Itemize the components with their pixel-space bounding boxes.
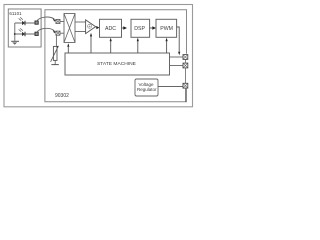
wire pad1 to pad2 xyxy=(184,59,186,63)
wire to photodiode D1 xyxy=(15,22,36,24)
svg-text:Regulator: Regulator xyxy=(137,87,157,92)
die pad A xyxy=(35,21,38,24)
chip input pad A xyxy=(56,19,60,23)
arrow SM to amp xyxy=(90,33,92,53)
photodiode D2 xyxy=(19,28,25,36)
svg-text:61101: 61101 xyxy=(9,11,22,16)
bond wire B xyxy=(37,28,56,33)
wire SM to pad1 xyxy=(170,56,184,58)
arrow SM to DSP xyxy=(137,38,139,53)
svg-text:PWM: PWM xyxy=(160,26,173,32)
wire SM to pad2 xyxy=(170,65,184,67)
voltage regulator box xyxy=(135,79,158,96)
sensor bus wire xyxy=(14,23,16,41)
junction dot xyxy=(14,33,16,35)
wire pad3 to chip edge xyxy=(184,88,186,102)
chip block 90302 xyxy=(45,10,187,102)
output pad 2 xyxy=(183,63,188,68)
arrow SM to chopper xyxy=(67,43,69,53)
wire chopper to amp lower xyxy=(75,31,86,33)
state machine box xyxy=(65,53,170,75)
svg-text:ADC: ADC xyxy=(105,26,116,32)
die pad B xyxy=(35,32,38,35)
wire to photodiode D2 xyxy=(15,33,36,35)
wire PWM output xyxy=(177,27,181,55)
op-amp U1 xyxy=(86,20,96,34)
svg-text:DSP: DSP xyxy=(134,26,145,32)
arrow SM to ADC xyxy=(110,38,112,53)
thermistor RT xyxy=(51,35,59,64)
ground xyxy=(11,41,19,44)
PWM box xyxy=(156,19,177,37)
wire VR to pad3 xyxy=(158,86,183,88)
label 90302 xyxy=(55,93,69,99)
wire pad A to chopper xyxy=(60,21,64,23)
output pad 1 xyxy=(183,55,188,60)
figure outer border xyxy=(4,5,193,107)
wire pad B to chopper xyxy=(60,32,64,34)
chopper box xyxy=(64,14,75,43)
bond wire A xyxy=(37,17,56,22)
arrow DSP to PWM xyxy=(150,26,156,30)
sensor box xyxy=(8,9,41,47)
wire amp to ADC xyxy=(96,26,100,29)
wire pad2 to pad3 xyxy=(184,68,186,83)
wire chopper to amp upper xyxy=(75,21,86,23)
svg-text:Voltage: Voltage xyxy=(139,82,155,87)
arrow ADC to DSP xyxy=(122,26,128,30)
svg-text:STATE MACHINE: STATE MACHINE xyxy=(97,61,137,67)
label 61101 xyxy=(9,11,22,16)
output pad 3 xyxy=(183,83,188,88)
DSP box xyxy=(131,19,150,37)
arrow SM to PWM xyxy=(166,38,168,53)
photodiode D1 xyxy=(19,17,25,25)
ADC box xyxy=(100,19,122,37)
svg-text:90302: 90302 xyxy=(55,93,69,99)
chip input pad B xyxy=(56,31,60,35)
